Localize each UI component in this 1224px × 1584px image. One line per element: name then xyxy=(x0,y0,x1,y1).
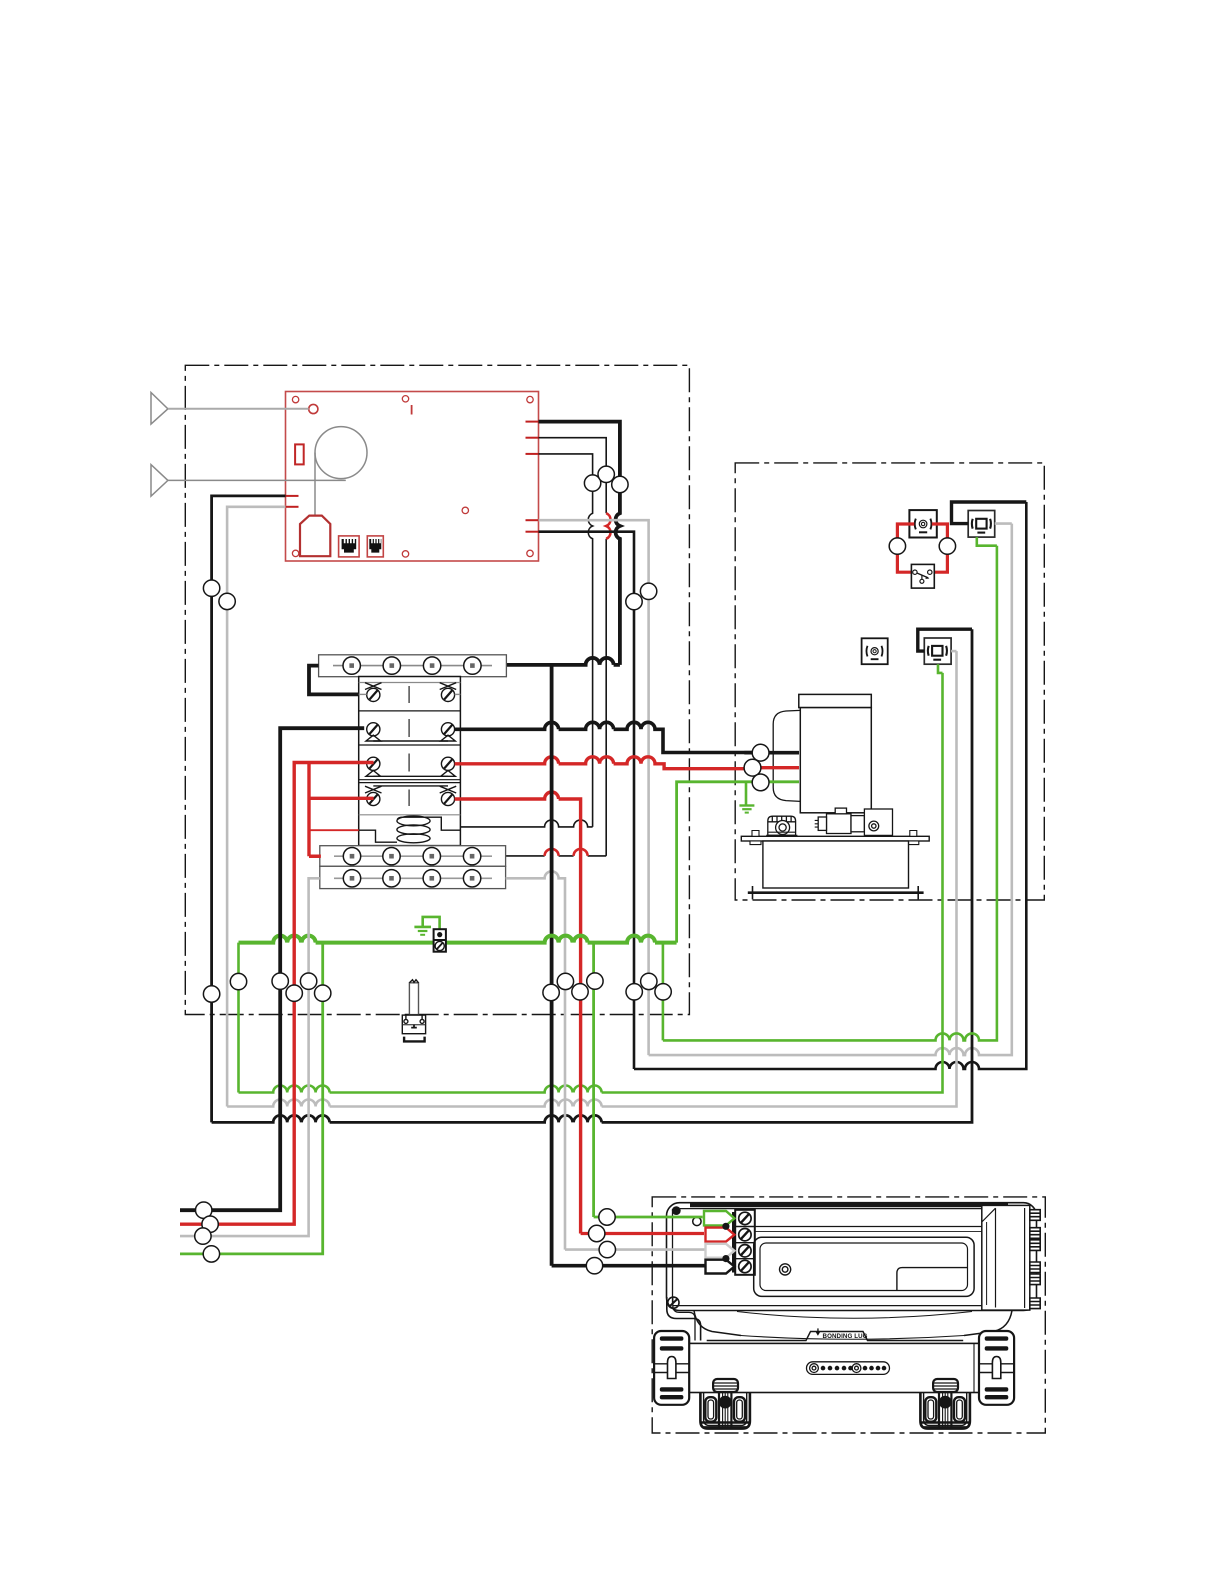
red coil feed (thin red) xyxy=(309,829,359,831)
wire R2 hot jumper (thick black) xyxy=(918,629,972,651)
wire splice left black lower xyxy=(203,986,219,1002)
wire board pin4 to receptacle R1 neutral (gray) xyxy=(539,520,1012,1055)
temp sensor well (red pentagon) xyxy=(300,516,330,557)
RJ45 jack J3 xyxy=(367,536,383,557)
spa lug gray xyxy=(706,1244,735,1258)
lug retaining screws xyxy=(722,1223,729,1230)
wire splice right gray drop xyxy=(641,973,657,989)
wire splice feed black xyxy=(543,984,559,1000)
breaker row4 poles xyxy=(365,786,456,806)
receptacle R2 box xyxy=(924,638,951,664)
spa lug green xyxy=(704,1211,734,1225)
wire splice feed green xyxy=(587,973,603,989)
wire splice right black drop xyxy=(626,984,642,1000)
heater end cap right xyxy=(979,1331,1014,1405)
wire splice on pin5 vertical xyxy=(626,593,642,609)
wire splice on pin4 vertical xyxy=(640,583,656,599)
wire light to splice left (red) xyxy=(897,524,914,572)
wire splice spa red xyxy=(589,1225,605,1241)
wire light to splice right (red) xyxy=(932,524,948,572)
wire R1 hot jumper (thick black) xyxy=(952,502,1027,524)
wire splice light right xyxy=(939,538,955,554)
spa light fixture F1 box xyxy=(909,510,936,537)
wire TB1 left to breaker row1 (thick black) xyxy=(309,666,364,695)
pump wet end / junction box xyxy=(766,816,797,835)
board component K1 (red rectangle) xyxy=(295,444,304,464)
GFCI test switch S2 xyxy=(402,980,425,1042)
wire spa red feed end (red) xyxy=(581,1232,704,1235)
pack right end cap xyxy=(982,1205,1030,1310)
spa lug red xyxy=(706,1228,735,1242)
wire splice green vertical xyxy=(315,985,331,1001)
board LED D1 (red circle) xyxy=(309,404,318,413)
green bonding bus (green) xyxy=(239,936,677,943)
supply green ground in (green) xyxy=(180,943,323,1254)
wire splice feed gray xyxy=(557,973,573,989)
contactor coil L1 xyxy=(359,816,461,843)
heater tube xyxy=(680,1343,982,1392)
heater element mount left xyxy=(700,1379,749,1429)
RJ45 jack J2 xyxy=(339,536,360,557)
TB4 screw 4 xyxy=(739,1260,751,1272)
wire breaker row3 to pump motor red (red) xyxy=(455,757,745,769)
controller circuit board U1 (red outline) xyxy=(286,392,539,562)
temp sensor cable loop (gray) xyxy=(168,479,346,481)
red hop arcs over feed wires at y856 xyxy=(545,849,588,856)
ground lug GL1 xyxy=(414,917,446,952)
wire R1 neutral stub (gray) xyxy=(995,522,1012,525)
pack cap clips xyxy=(1030,1210,1040,1309)
pack terminal block TB4 xyxy=(735,1210,755,1275)
wire splice on pin2 vertical xyxy=(598,466,614,482)
main feed TB1 to spa pack (thick black) xyxy=(550,665,554,1266)
heater terminal row xyxy=(807,1362,890,1375)
board mounting holes xyxy=(292,396,533,558)
wire R2 neutral stub (gray) xyxy=(951,650,956,653)
wire nut motor black xyxy=(744,751,799,755)
pack inner control box xyxy=(754,1227,982,1297)
wire splice supply green xyxy=(203,1246,219,1262)
wire splice black vertical xyxy=(272,973,288,989)
lower terminal strip TB3 (neutral) xyxy=(320,866,506,888)
wire nut motor green xyxy=(752,774,769,791)
red branch to TB2 line terminal (thick red elbow) xyxy=(309,855,321,858)
wire board pin2 to lower terminal strip L1 (thin black) xyxy=(506,438,607,856)
wire motor green bonding (green) xyxy=(677,782,799,943)
wire sensor A to board (gray) xyxy=(168,408,309,410)
svg-text:BONDING LUG: BONDING LUG xyxy=(823,1333,868,1340)
equipment area boundary (dash-dot box) xyxy=(735,463,1044,900)
wire TB3 neutral out to spa pack (gray) xyxy=(506,871,565,1249)
supply gray neutral in (gray) xyxy=(180,878,320,1236)
wire splice supply black xyxy=(196,1202,212,1218)
green drop to lower receptacles (green) xyxy=(663,546,997,1041)
pump base plate xyxy=(741,831,929,845)
supply black L1 in (thick black) xyxy=(180,728,364,1210)
wire board left pin black to receptacle R2 hot (thin black) xyxy=(212,496,972,1123)
wire splice on pin1 vertical xyxy=(612,476,628,492)
red hop arcs at board pin2 vertical xyxy=(606,513,610,539)
wire spa black feed end (thick black) xyxy=(552,1264,706,1268)
wire splice right green drop xyxy=(655,984,671,1000)
wire splice supply gray xyxy=(195,1228,211,1244)
control enclosure boundary (dash-dot box) xyxy=(185,365,689,1014)
wire splice on pin3 vertical xyxy=(584,475,600,491)
sensor input connector B (gray triangle) xyxy=(151,465,168,497)
wire splice on left black vertical xyxy=(203,580,219,596)
supply red L2 in (red) xyxy=(180,763,374,1225)
wire splice spa black xyxy=(586,1258,602,1274)
heater end cap left xyxy=(654,1331,689,1405)
wire splice gray vertical xyxy=(300,973,316,989)
wire splice spa gray xyxy=(599,1241,615,1257)
TB4 screw 1 xyxy=(739,1212,751,1224)
lower terminal strip TB2 (line side) xyxy=(320,846,506,867)
wire green bonding to receptacle R2 ground (green) xyxy=(239,673,943,1093)
wire splice spa green xyxy=(599,1209,615,1225)
wire board pin3 to contactor coil (thin black) xyxy=(460,454,592,827)
wire splice red vertical xyxy=(286,985,302,1001)
board jumper J1 (red tick) xyxy=(411,405,413,415)
heater element mount right xyxy=(920,1379,969,1429)
wire board left pin gray to receptacle R2 neutral (gray) xyxy=(227,507,956,1107)
spa control pack shell xyxy=(667,1203,1037,1311)
bonding lug label xyxy=(816,1328,868,1339)
ground symbol at motor (green) xyxy=(739,782,754,813)
pump shaft housing xyxy=(815,808,893,835)
wire spa gray feed end (gray) xyxy=(565,1248,706,1251)
breaker row1 poles xyxy=(359,683,461,703)
pack flange screw top-left xyxy=(672,1206,681,1215)
pump mounting tank xyxy=(763,841,909,888)
pump motor M1 body xyxy=(773,694,871,812)
pump base rail xyxy=(748,886,924,899)
wire board pin5 to receptacle R1 hot (thin black) xyxy=(539,502,1027,1069)
contactor / breaker block CB1 xyxy=(359,677,461,846)
green feed to spa pack (green) xyxy=(592,943,595,1217)
pack lower taper xyxy=(694,1311,1012,1341)
spa light fixture F2 box (spare) xyxy=(862,638,888,664)
wire spa green feed end (green) xyxy=(594,1216,703,1219)
top terminal strip TB1 xyxy=(319,655,507,677)
breaker row2 poles xyxy=(366,719,455,741)
wire R1 ground stub (green) xyxy=(977,537,997,546)
wire breaker row4 to spa pack red (red) xyxy=(455,792,581,1234)
wire splice supply red xyxy=(202,1216,218,1232)
wire R2 ground stub (green) xyxy=(938,664,943,673)
board pin stubs left edge (red) xyxy=(286,496,299,507)
wire breaker row2 to pump motor black (thick black) xyxy=(455,722,753,752)
pack panel hole xyxy=(780,1264,791,1275)
wire splice left green lower xyxy=(230,973,246,989)
board pin stubs right edge (red) xyxy=(526,422,539,532)
pack flange screw bottom-left xyxy=(668,1297,679,1308)
wire nut motor red xyxy=(744,766,799,769)
wire splice feed red xyxy=(572,984,588,1000)
wire splice on left gray vertical xyxy=(219,593,235,609)
TB4 lug bar xyxy=(732,1212,735,1273)
wire board pin1 to top terminal strip (thick black) xyxy=(506,422,620,665)
breaker row3 poles xyxy=(366,754,455,777)
TB4 screw 2 xyxy=(739,1229,751,1241)
sensor input connector A (gray triangle) xyxy=(151,393,168,425)
receptacle R1 box xyxy=(968,511,995,538)
pack flange hole xyxy=(693,1217,701,1225)
TB4 screw 3 xyxy=(739,1245,751,1257)
spa pack boundary (dash-dot box) xyxy=(652,1197,1045,1433)
red branch to row4 / coil / TB2 (red) xyxy=(309,763,374,857)
wire splice light left xyxy=(889,538,905,554)
spa lug black xyxy=(706,1260,735,1274)
pack drain elbow xyxy=(667,1297,701,1341)
light switch S1 box xyxy=(911,564,934,588)
